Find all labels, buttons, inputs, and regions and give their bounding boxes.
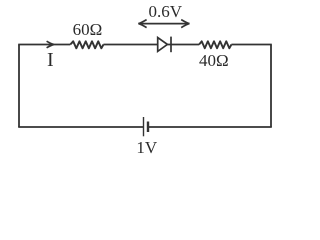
battery B1 long plate	[143, 117, 145, 136]
diode D1 cathode bar	[170, 37, 172, 53]
double arrow right head	[181, 20, 189, 28]
wire bottom right segment	[148, 126, 271, 128]
double arrow left head	[138, 20, 146, 28]
svg-text:1V: 1V	[136, 138, 158, 157]
diode D1 triangle	[158, 38, 168, 52]
wire top between diode and R2	[167, 44, 199, 46]
voltage marker double arrow line	[139, 23, 190, 25]
wire left side	[18, 45, 20, 128]
wire right side	[270, 45, 272, 128]
wire top left segment	[18, 44, 70, 46]
wire top between R1 and diode	[103, 44, 157, 46]
wire top right segment	[231, 44, 271, 46]
svg-text:0.6V: 0.6V	[149, 2, 183, 21]
resistor R2 40ohm zigzag	[199, 41, 231, 48]
svg-text:40Ω: 40Ω	[199, 51, 229, 70]
svg-text:I: I	[47, 49, 54, 71]
svg-text:60Ω: 60Ω	[73, 20, 103, 39]
battery B1 short plate	[147, 122, 149, 133]
wire bottom left segment	[18, 126, 143, 128]
resistor R1 60ohm zigzag	[70, 41, 103, 48]
current arrow head on top-left wire	[47, 41, 54, 48]
